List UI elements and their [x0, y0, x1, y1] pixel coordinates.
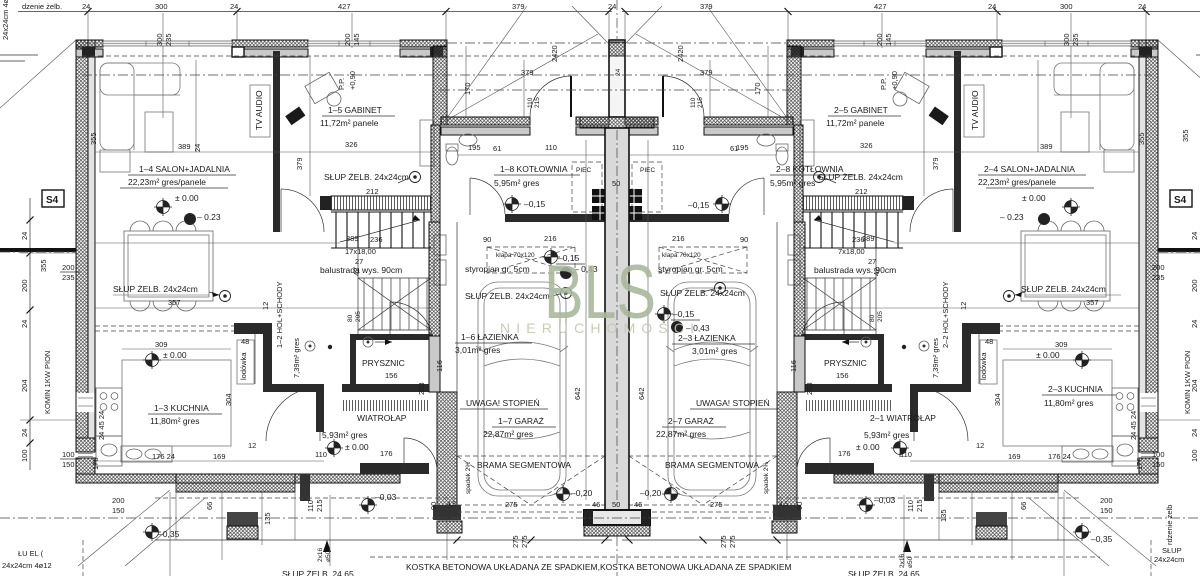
- svg-text:176 24: 176 24: [1048, 452, 1071, 461]
- svg-text:+0,90: +0,90: [348, 71, 357, 90]
- svg-text:275: 275: [728, 535, 737, 548]
- svg-text:90: 90: [483, 235, 491, 244]
- svg-text:SŁUP ŻELB. 24x24cm: SŁUP ŻELB. 24x24cm: [465, 291, 550, 301]
- svg-text:50: 50: [612, 179, 620, 188]
- svg-text:2–2 HOL+SCHODY: 2–2 HOL+SCHODY: [941, 282, 950, 349]
- svg-text:BRAMA SEGMENTOWA: BRAMA SEGMENTOWA: [665, 460, 759, 470]
- wire bottom dim line: [155, 539, 612, 541]
- svg-text:24 45 24: 24 45 24: [1129, 411, 1138, 440]
- svg-text:PRYSZNIC: PRYSZNIC: [824, 358, 867, 368]
- svg-text:PIEC: PIEC: [576, 167, 591, 174]
- furnace blocks: [592, 189, 608, 203]
- svg-text:5,95m² gres: 5,95m² gres: [770, 178, 815, 188]
- svg-text:379: 379: [295, 157, 304, 170]
- svg-text:195: 195: [468, 143, 481, 152]
- svg-text:11,72m² panele: 11,72m² panele: [320, 118, 379, 128]
- svg-text:66: 66: [1019, 502, 1028, 510]
- svg-text:7,39m² gres: 7,39m² gres: [292, 338, 301, 378]
- svg-text:200: 200: [1100, 496, 1113, 505]
- svg-text:90: 90: [740, 235, 748, 244]
- wire stairs arrow: [340, 220, 420, 242]
- svg-text:642: 642: [573, 387, 582, 400]
- svg-text:± 0.00: ± 0.00: [163, 350, 187, 360]
- wire bottom diagonals: [78, 490, 170, 566]
- svg-text:169: 169: [213, 452, 226, 461]
- chairs top: [130, 221, 150, 231]
- svg-text:379: 379: [512, 2, 525, 11]
- svg-text:300: 300: [155, 33, 164, 46]
- wire extra lines: [0, 40, 76, 108]
- top row 2 rotated pairs: [155, 33, 1080, 62]
- svg-text:427: 427: [338, 2, 351, 11]
- svg-text:UWAGA! STOPIEŃ: UWAGA! STOPIEŃ: [696, 398, 770, 408]
- svg-text:355: 355: [89, 132, 98, 145]
- wire bottom verticals: [221, 492, 223, 560]
- svg-text:156: 156: [385, 371, 398, 380]
- svg-text:300: 300: [1062, 33, 1071, 46]
- svg-text:2–7 GARAŻ: 2–7 GARAŻ: [668, 416, 714, 426]
- svg-text:17x18,00: 17x18,00: [345, 247, 376, 256]
- svg-text:100: 100: [1152, 450, 1165, 459]
- svg-text:355: 355: [1137, 132, 1146, 145]
- door shower arc: [390, 302, 432, 334]
- svg-text:styropian gr. 5cm: styropian gr. 5cm: [658, 264, 723, 274]
- wall left exterior outer leaf: [76, 40, 88, 438]
- svg-text:24x24cm 4ø12: 24x24cm 4ø12: [2, 561, 52, 570]
- wire porch dim verticals: [465, 46, 467, 117]
- svg-text:304: 304: [993, 393, 1002, 406]
- svg-text:110: 110: [306, 500, 315, 512]
- svg-text:5,95m² gres: 5,95m² gres: [494, 178, 539, 188]
- wall porch recessed outer: [441, 117, 530, 125]
- door salon arc: [280, 189, 282, 232]
- svg-text:+0,90: +0,90: [890, 71, 899, 90]
- svg-text:169: 169: [1008, 452, 1021, 461]
- svg-text:ø50: ø50: [907, 556, 914, 568]
- svg-text:–0,03: –0,03: [874, 495, 896, 505]
- svg-text:SŁUP ŻELB. 24x24cm: SŁUP ŻELB. 24x24cm: [324, 172, 409, 182]
- svg-text:205: 205: [877, 311, 884, 322]
- wall left lower window blocks: [76, 438, 95, 452]
- wall hall/shower vertical: [350, 336, 356, 384]
- wall wiatrolap left: [316, 390, 324, 432]
- chimney top column: [609, 40, 625, 117]
- svg-text:styropian gr. 5cm: styropian gr. 5cm: [465, 264, 530, 274]
- svg-text:KOMIN 1KW PION: KOMIN 1KW PION: [43, 351, 52, 414]
- svg-text:357: 357: [1086, 298, 1099, 307]
- window top-right: [308, 41, 400, 46]
- chairs bottom: [130, 301, 150, 311]
- svg-text:215: 215: [315, 499, 324, 512]
- svg-text:–0,15: –0,15: [673, 309, 695, 319]
- wire kitchen open dashes: [95, 325, 234, 327]
- svg-text:61: 61: [730, 144, 738, 153]
- svg-text:200: 200: [875, 33, 884, 46]
- wall kitchen top: [234, 323, 272, 334]
- wall salon/gabinet divider: [273, 51, 280, 232]
- svg-text:24: 24: [20, 232, 29, 240]
- svg-text:KOSTKA BETONOWA UKŁADANA ZE SP: KOSTKA BETONOWA UKŁADANA ZE SPADKIEM,KOS…: [406, 562, 792, 572]
- svg-text:355: 355: [1181, 129, 1190, 142]
- svg-text:236: 236: [370, 235, 383, 244]
- svg-text:± 0.00: ± 0.00: [175, 193, 199, 203]
- svg-text:24x24cm: 24x24cm: [1154, 555, 1184, 564]
- column markers: [410, 172, 421, 183]
- svg-text:–0,20: –0,20: [571, 488, 593, 498]
- window left wall kitchen: [77, 393, 95, 412]
- svg-text:22,23m² gres/panele: 22,23m² gres/panele: [978, 177, 1056, 187]
- svg-text:2–8 KOTŁOWNIA: 2–8 KOTŁOWNIA: [776, 164, 844, 174]
- svg-text:200: 200: [112, 496, 125, 505]
- gabinet furniture desk: [305, 72, 339, 103]
- svg-text:275: 275: [505, 500, 518, 509]
- svg-text:SŁUP ŻELB. 24x24cm: SŁUP ŻELB. 24x24cm: [113, 284, 198, 294]
- svg-text:200: 200: [1190, 279, 1199, 292]
- svg-text:110: 110: [527, 97, 534, 108]
- svg-text:379: 379: [700, 68, 713, 77]
- svg-text:275: 275: [511, 535, 520, 548]
- svg-text:SŁUP: SŁUP: [1162, 546, 1182, 555]
- svg-text:48: 48: [985, 337, 993, 346]
- svg-text:642: 642: [637, 387, 646, 400]
- svg-text:389: 389: [346, 234, 359, 243]
- svg-text:KOMIN 1KW PION: KOMIN 1KW PION: [1183, 351, 1192, 414]
- svg-text:110: 110: [315, 450, 327, 459]
- svg-text:2420: 2420: [676, 45, 685, 62]
- svg-text:176: 176: [838, 449, 851, 458]
- svg-text:176 24: 176 24: [152, 452, 175, 461]
- svg-text:176: 176: [91, 457, 100, 470]
- brama dashes: [457, 455, 605, 457]
- svg-text:90: 90: [429, 502, 438, 510]
- svg-text:150: 150: [1100, 506, 1113, 515]
- wire top diagonal leaders: [447, 6, 527, 118]
- svg-text:24 45 24: 24 45 24: [97, 411, 106, 440]
- svg-text:24: 24: [82, 2, 90, 11]
- central footing: [584, 510, 650, 525]
- svg-text:110: 110: [900, 450, 912, 459]
- svg-text:61: 61: [493, 144, 501, 153]
- svg-text:355: 355: [39, 259, 48, 272]
- svg-text:200: 200: [1152, 263, 1165, 272]
- svg-text:42: 42: [352, 268, 361, 276]
- svg-text:24: 24: [1190, 429, 1199, 437]
- svg-text:203: 203: [417, 382, 426, 395]
- svg-text:235: 235: [1071, 33, 1080, 46]
- svg-text:275: 275: [710, 500, 723, 509]
- svg-text:1–4 SALON+JADALNIA: 1–4 SALON+JADALNIA: [139, 164, 230, 174]
- svg-text:rdzenie żelb: rdzenie żelb: [1165, 505, 1174, 545]
- svg-text:24: 24: [230, 2, 238, 11]
- svg-text:24x24cm 4ø12: 24x24cm 4ø12: [1, 0, 10, 40]
- fridge bay: [254, 334, 256, 384]
- klapa dashed rect: [487, 247, 575, 273]
- watermark: [500, 250, 694, 336]
- svg-text:lodówka: lodówka: [979, 352, 988, 380]
- svg-text:235: 235: [62, 273, 75, 282]
- svg-text:SŁUP ŻELB. 24x24cm: SŁUP ŻELB. 24x24cm: [660, 288, 745, 298]
- svg-text:80: 80: [869, 314, 876, 322]
- svg-text:–0,35: –0,35: [1091, 534, 1113, 544]
- svg-text:176: 176: [380, 449, 393, 458]
- svg-text:379: 379: [700, 2, 713, 11]
- svg-text:215: 215: [915, 499, 924, 512]
- center vertical dashdot: [616, 0, 618, 40]
- svg-text:11,80m² gres: 11,80m² gres: [1044, 398, 1093, 408]
- svg-text:spadek 2%: spadek 2%: [763, 462, 770, 494]
- svg-text:TV AUDIO: TV AUDIO: [970, 90, 980, 130]
- svg-text:2–3 KUCHNIA: 2–3 KUCHNIA: [1048, 384, 1103, 394]
- svg-text:2420: 2420: [550, 45, 559, 62]
- svg-text:300: 300: [155, 2, 168, 11]
- svg-text:205: 205: [355, 311, 362, 322]
- svg-text:–0,15: –0,15: [688, 200, 710, 210]
- svg-text:PRYSZNIC: PRYSZNIC: [362, 358, 405, 368]
- svg-text:P.P.: P.P.: [879, 78, 888, 90]
- svg-text:204: 204: [20, 379, 29, 392]
- svg-text:22,87m² gres: 22,87m² gres: [656, 429, 706, 439]
- svg-text:2–5 GABINET: 2–5 GABINET: [834, 105, 888, 115]
- wall bottom exterior: [76, 474, 176, 483]
- left margin rotated: [1, 0, 202, 470]
- svg-text:1–8 KOTŁOWNIA: 1–8 KOTŁOWNIA: [500, 164, 568, 174]
- svg-text:304: 304: [224, 393, 233, 406]
- svg-text:145: 145: [352, 33, 361, 46]
- svg-text:12: 12: [959, 302, 968, 310]
- svg-text:309: 309: [155, 340, 168, 349]
- wall step vertical (porch corner): [433, 46, 447, 125]
- svg-text:110: 110: [545, 143, 557, 152]
- svg-text:11,80m² gres: 11,80m² gres: [150, 416, 199, 426]
- svg-text:2–1 WIATROŁAP: 2–1 WIATROŁAP: [870, 413, 936, 423]
- svg-text:116: 116: [435, 360, 444, 372]
- svg-text:389: 389: [1040, 142, 1053, 151]
- wc small room fixtures: [434, 235, 446, 255]
- svg-text:4,5: 4,5: [779, 501, 788, 508]
- S4 boxes: [42, 190, 64, 207]
- furniture dining table: [124, 231, 213, 301]
- svg-text:145: 145: [884, 33, 893, 46]
- svg-text:ø50: ø50: [325, 550, 332, 562]
- svg-text:236: 236: [852, 235, 865, 244]
- svg-text:2x16: 2x16: [317, 548, 324, 562]
- svg-text:235: 235: [164, 33, 173, 46]
- svg-text:110: 110: [906, 500, 915, 512]
- page-wide dashdot lines: [0, 251, 76, 253]
- svg-text:389: 389: [178, 142, 191, 151]
- svg-text:215: 215: [697, 97, 704, 108]
- svg-text:balustrada wys. 90cm: balustrada wys. 90cm: [814, 265, 896, 275]
- svg-text:3,01m² gres: 3,01m² gres: [455, 345, 500, 355]
- wall wiatrolap top: [342, 384, 429, 392]
- garage left boundary line: [456, 222, 458, 456]
- kotlownia left wall: [431, 125, 440, 222]
- svg-text:PIEC: PIEC: [640, 167, 655, 174]
- svg-text:–0,20: –0,20: [640, 488, 662, 498]
- svg-text:UWAGA! STOPIEŃ: UWAGA! STOPIEŃ: [466, 398, 540, 408]
- svg-text:–0,03: –0,03: [375, 492, 397, 502]
- wall left exterior inner leaf: [88, 40, 95, 438]
- wire overhang dashed full width: [447, 42, 787, 44]
- stairs lower treads: [358, 248, 431, 334]
- svg-text:SŁUP ŻELB. 24x24cm: SŁUP ŻELB. 24x24cm: [1021, 284, 1106, 294]
- svg-text:NIERUCHOMOŚCI: NIERUCHOMOŚCI: [500, 319, 694, 336]
- svg-text:5,93m² gres: 5,93m² gres: [322, 430, 367, 440]
- svg-text:BRAMA SEGMENTOWA: BRAMA SEGMENTOWA: [477, 460, 571, 470]
- svg-text:24: 24: [20, 320, 29, 328]
- svg-text:46: 46: [592, 500, 600, 509]
- svg-text:dzenie żelb.: dzenie żelb.: [22, 2, 62, 11]
- wall kotlownia bottom: [505, 214, 605, 222]
- kitchen stove: [96, 388, 122, 436]
- svg-text:357: 357: [168, 298, 181, 307]
- svg-text:326: 326: [860, 141, 873, 150]
- svg-text:46: 46: [634, 500, 642, 509]
- svg-text:309: 309: [1055, 340, 1068, 349]
- svg-text:22,87m² gres: 22,87m² gres: [483, 429, 533, 439]
- wire kotlownia dim: [457, 154, 609, 156]
- furniture tv cabinet: [250, 85, 270, 137]
- wall bottom wiatrolap segment: [360, 463, 429, 474]
- node left margin chain: [29, 198, 31, 470]
- svg-text:275: 275: [520, 535, 529, 548]
- wall kitchen/hall vertical: [263, 323, 272, 392]
- svg-text:–0,15: –0,15: [524, 199, 546, 209]
- svg-text:lodówka: lodówka: [239, 352, 248, 380]
- svg-text:379: 379: [521, 68, 534, 77]
- svg-text:± 0.00: ± 0.00: [1022, 193, 1046, 203]
- wire top dim drops: [87, 12, 89, 41]
- svg-text:156: 156: [836, 371, 849, 380]
- svg-text:24: 24: [608, 2, 616, 11]
- wire left inner vertical dim: [90, 100, 92, 200]
- svg-text:TV AUDIO: TV AUDIO: [254, 90, 264, 130]
- kotlownia toilet: [446, 147, 458, 165]
- furniture coffee table: [145, 112, 173, 152]
- svg-text:24: 24: [1190, 232, 1199, 240]
- svg-text:spadek 2%: spadek 2%: [465, 462, 472, 494]
- level marker salon: [154, 198, 172, 216]
- svg-text:P.P.: P.P.: [337, 78, 346, 90]
- level marker salon2: [184, 213, 196, 225]
- shower symbols: [305, 341, 315, 351]
- svg-text:klapa 70x120: klapa 70x120: [496, 252, 535, 259]
- svg-text:1–2 HOL+SCHODY: 1–2 HOL+SCHODY: [275, 282, 284, 349]
- svg-text:215: 215: [534, 97, 541, 108]
- window top-left: [103, 41, 232, 46]
- svg-text:1–3 KUCHNIA: 1–3 KUCHNIA: [154, 403, 209, 413]
- wall top exterior segments: [76, 40, 103, 47]
- svg-text:1–6 ŁAZIENKA: 1–6 ŁAZIENKA: [461, 332, 519, 342]
- wall gabinet bottom (hatched): [331, 196, 431, 210]
- svg-text:klapa 70x120: klapa 70x120: [662, 252, 701, 259]
- svg-text:203: 203: [805, 382, 814, 395]
- svg-text:150: 150: [112, 506, 125, 515]
- svg-text:22,23m² gres/panele: 22,23m² gres/panele: [128, 177, 206, 187]
- svg-text:–0,35: –0,35: [158, 529, 180, 539]
- svg-text:7,39m² gres: 7,39m² gres: [931, 338, 940, 378]
- svg-text:24: 24: [615, 68, 622, 76]
- svg-text:200: 200: [343, 33, 352, 46]
- chimney T cap: [580, 117, 654, 128]
- svg-text:200: 200: [20, 279, 29, 292]
- svg-text:12: 12: [261, 302, 270, 310]
- door entrance wiatrolap: [403, 438, 405, 471]
- car in garage: [476, 282, 568, 496]
- kitchen floor outline: [122, 360, 231, 446]
- svg-text:24: 24: [20, 429, 29, 437]
- svg-text:100: 100: [1190, 449, 1199, 462]
- wire salon dim line: [95, 151, 433, 153]
- svg-text:66: 66: [205, 502, 214, 510]
- wall kitchen bottom horizontal: [263, 384, 324, 392]
- svg-text:WIATROŁAP: WIATROŁAP: [357, 413, 407, 423]
- level -0.35: [143, 523, 161, 541]
- svg-text:300: 300: [1060, 2, 1073, 11]
- level kotlownia: [503, 195, 521, 213]
- door kotlownia: [469, 178, 471, 215]
- svg-text:170: 170: [753, 82, 762, 95]
- svg-text:ŁU EL (: ŁU EL (: [18, 549, 44, 558]
- svg-text:170: 170: [463, 82, 472, 95]
- svg-text:4,5: 4,5: [447, 501, 456, 508]
- svg-text:2–4 SALON+JADALNIA: 2–4 SALON+JADALNIA: [984, 164, 1075, 174]
- svg-text:balustrada wys. 90cm: balustrada wys. 90cm: [320, 265, 402, 275]
- svg-text:116: 116: [789, 360, 798, 372]
- svg-text:11,72m² panele: 11,72m² panele: [826, 118, 885, 128]
- svg-text:176: 176: [1135, 457, 1144, 470]
- svg-text:– 0.23: – 0.23: [197, 212, 221, 222]
- wall porch recessed inner: [441, 127, 530, 135]
- svg-text:12: 12: [248, 441, 256, 450]
- svg-text:7x18,00: 7x18,00: [838, 247, 865, 256]
- door entrance leaf+arc: [570, 76, 572, 117]
- svg-text:212: 212: [855, 187, 868, 196]
- svg-text:235: 235: [1152, 273, 1165, 282]
- piec dashed box: [572, 162, 602, 212]
- svg-text:± 0.00: ± 0.00: [856, 442, 880, 452]
- stairs upper treads: [331, 212, 431, 248]
- svg-text:5,93m² gres: 5,93m² gres: [864, 430, 909, 440]
- level garage: [554, 485, 572, 503]
- level -0.03: [359, 496, 377, 514]
- level wiatrolap: [325, 439, 343, 457]
- svg-text:216: 216: [672, 234, 685, 243]
- svg-text:S4: S4: [46, 195, 59, 206]
- svg-text:90: 90: [795, 502, 804, 510]
- svg-text:24: 24: [1190, 320, 1199, 328]
- svg-text:12: 12: [976, 441, 984, 450]
- svg-text:3,01m² gres: 3,01m² gres: [692, 346, 737, 356]
- svg-text:275: 275: [719, 535, 728, 548]
- svg-text:24: 24: [988, 2, 996, 11]
- kitchen bottom counter: [121, 446, 172, 462]
- doormat hatch band: [342, 400, 429, 411]
- level kitchen: [143, 351, 161, 369]
- level symbols klapa asym: [542, 248, 560, 266]
- svg-text:212: 212: [366, 187, 379, 196]
- svg-text:48: 48: [241, 337, 249, 346]
- wall top inner leaf bars: [76, 49, 103, 57]
- svg-text:100: 100: [62, 450, 75, 459]
- wall shower top: [350, 334, 433, 340]
- wire top dim line: [18, 11, 612, 13]
- svg-text:24: 24: [193, 144, 202, 152]
- svg-text:S4: S4: [1174, 195, 1187, 206]
- svg-text:80: 80: [347, 314, 354, 322]
- wall between wc and garage strip: [429, 222, 440, 336]
- outside step block: [227, 512, 258, 526]
